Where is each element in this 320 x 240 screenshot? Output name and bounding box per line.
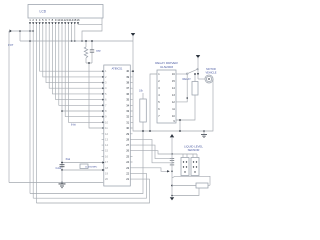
relay driver U2 ULN2003 bbox=[155, 61, 178, 123]
power 12V arrow motor bbox=[196, 55, 200, 79]
capacitor cap bbox=[90, 40, 101, 63]
U1 left pin numbers 1-20 bbox=[105, 69, 108, 181]
wire LCD pin15 to VCC rail bbox=[74, 25, 76, 41]
U2 right pin numbers bbox=[172, 73, 175, 123]
wire ground rail left to U1 pin20 bbox=[9, 182, 103, 184]
wire LCD pin16 hook to rail bbox=[78, 18, 102, 41]
svg-text:27: 27 bbox=[126, 143, 129, 147]
MCU U1 AT89C51 bbox=[104, 65, 131, 186]
svg-text:24: 24 bbox=[126, 160, 129, 164]
wire bottom rail B LCD pin2 to U1 pin22 bbox=[33, 173, 146, 198]
wire U1 pin28 step to sensor column bbox=[130, 139, 172, 162]
svg-text:14: 14 bbox=[105, 143, 108, 147]
sensor probe rects bbox=[171, 153, 199, 175]
wire U2 pin9 to rail bbox=[176, 120, 180, 131]
wire reset join to U1 pin11 bbox=[86, 63, 103, 128]
svg-text:VEHICLE: VEHICLE bbox=[205, 71, 216, 75]
svg-text:20: 20 bbox=[105, 177, 108, 181]
wire LCD pin6 staircase to U1 pin3 bbox=[46, 25, 103, 83]
ground arrow below Q1 bbox=[170, 197, 174, 200]
LCD pin arrows bbox=[29, 22, 79, 24]
wire VCC rail horizontal bbox=[20, 40, 133, 42]
svg-text:16: 16 bbox=[105, 154, 108, 158]
capacitor Cxtal bbox=[56, 164, 65, 170]
wire LCD pin5 staircase to U1 pin2 bbox=[43, 25, 103, 77]
wire LCD pin10 staircase to U1 pin7 bbox=[59, 25, 103, 106]
svg-text:ULN2003: ULN2003 bbox=[160, 65, 173, 69]
svg-text:32: 32 bbox=[126, 115, 129, 119]
svg-text:33: 33 bbox=[126, 109, 129, 113]
svg-text:19: 19 bbox=[105, 172, 108, 176]
svg-text:LCD: LCD bbox=[39, 9, 46, 13]
wire bottom rail C LCD pin3 to U1 pin21 bbox=[36, 179, 149, 203]
svg-text:15: 15 bbox=[105, 149, 108, 153]
wire ground rail y131 bbox=[133, 79, 213, 131]
svg-text:13: 13 bbox=[105, 137, 108, 141]
U2 left pin numbers bbox=[158, 73, 160, 118]
svg-text:cap: cap bbox=[96, 49, 101, 53]
wire left rail vertical bbox=[8, 31, 10, 183]
resistor R pull at x143 bbox=[139, 90, 146, 123]
wire LCD pin12 staircase to U1 pin9 bbox=[65, 25, 103, 117]
wire LCD pin2 to bottom rail B bbox=[32, 25, 34, 199]
crystal X1 bbox=[61, 157, 104, 171]
svg-text:17: 17 bbox=[105, 160, 108, 164]
svg-text:10: 10 bbox=[105, 120, 108, 124]
svg-text:35: 35 bbox=[126, 98, 129, 102]
LCD display LCD1 bbox=[28, 5, 103, 19]
svg-text:21: 21 bbox=[126, 177, 129, 181]
wire sensor bottom loop bbox=[172, 188, 199, 196]
ground crystal bbox=[59, 170, 66, 188]
liquid level sensor label bbox=[184, 144, 203, 152]
svg-text:37: 37 bbox=[126, 86, 129, 90]
svg-text:28: 28 bbox=[126, 137, 129, 141]
power terminal 5V arrow left bbox=[10, 30, 34, 33]
wire LCD pin7 staircase to U1 pin4 bbox=[49, 25, 103, 89]
wire LCD pin4 staircase to U1 pin1 bbox=[40, 25, 104, 72]
svg-text:26: 26 bbox=[126, 149, 129, 153]
svg-text:40: 40 bbox=[126, 69, 129, 73]
U1 right pin numbers 40-21 bbox=[126, 69, 129, 181]
svg-text:38: 38 bbox=[126, 81, 129, 85]
transistor Q1 bbox=[171, 154, 175, 196]
svg-text:31: 31 bbox=[126, 120, 129, 124]
relay RL1 bbox=[179, 73, 198, 121]
svg-text:SENSOR: SENSOR bbox=[188, 148, 200, 152]
svg-text:Xtal: Xtal bbox=[66, 157, 71, 161]
wire LCD pin9 staircase to U1 pin6 bbox=[56, 25, 104, 100]
svg-text:39: 39 bbox=[126, 75, 129, 79]
svg-text:25: 25 bbox=[126, 154, 129, 158]
svg-text:18: 18 bbox=[105, 166, 108, 170]
wire LCD pin3 to bottom rail C bbox=[35, 25, 37, 203]
resistor reset R bbox=[84, 40, 87, 63]
svg-text:12: 12 bbox=[105, 132, 108, 136]
wire U2 pin1 input from rail bbox=[150, 74, 157, 131]
svg-text:AT89C51: AT89C51 bbox=[112, 66, 123, 70]
relay switch contact bbox=[176, 69, 198, 102]
capacitor marks on sensor feed bbox=[170, 158, 174, 165]
node VDD junction dots bbox=[29, 30, 31, 32]
svg-text:Cxtal: Cxtal bbox=[56, 167, 62, 170]
LCD pin numbers 1-16 bbox=[29, 18, 80, 22]
U1 left pin stubs bbox=[102, 134, 104, 157]
wire emitter to resistor bbox=[172, 185, 196, 187]
svg-text:11.0592MHz: 11.0592MHz bbox=[85, 167, 97, 169]
arrows into U1 left pins bbox=[102, 70, 104, 129]
wire LCD pin1 to bottom rail A bbox=[29, 25, 31, 194]
wire VCC to U1 pin40 and pin31 bbox=[131, 41, 133, 122]
svg-text:RELAY: RELAY bbox=[183, 77, 192, 81]
U1 right pin stubs bbox=[130, 77, 132, 162]
svg-text:30: 30 bbox=[126, 126, 129, 130]
wire LCD pin11 staircase to U1 pin8 and crystal bbox=[62, 25, 103, 170]
ground symbol on rail bbox=[201, 130, 207, 138]
svg-text:29: 29 bbox=[126, 132, 129, 136]
svg-text:36: 36 bbox=[126, 92, 129, 96]
wire U1 pin27 step to sensor column bbox=[130, 145, 172, 159]
resistor sensor R2 bbox=[196, 183, 208, 188]
motor M vehicle bbox=[198, 67, 217, 83]
svg-text:8-bit: 8-bit bbox=[71, 124, 76, 127]
svg-text:22: 22 bbox=[126, 172, 129, 176]
wire U1 pin23 to Q1 base bbox=[130, 168, 168, 172]
power arrow sensor bbox=[170, 134, 174, 154]
svg-text:23: 23 bbox=[126, 166, 129, 170]
wire LCD pin14 to VCC rail bbox=[71, 25, 73, 41]
wire bottom rail A LCD pin1 to resistor chain bbox=[30, 122, 143, 194]
wire U1 pin26 step to probes top bbox=[130, 151, 172, 154]
wire collector loop bbox=[175, 176, 210, 185]
svg-text:MOTOR: MOTOR bbox=[206, 67, 216, 71]
svg-text:34: 34 bbox=[126, 103, 129, 107]
svg-text:16: 16 bbox=[76, 18, 80, 22]
power 5V symbol top bbox=[131, 33, 135, 41]
wire LCD pin13 staircase to U1 pin10 bbox=[68, 25, 103, 123]
wire LCD pin8 staircase to U1 pin5 bbox=[52, 25, 103, 94]
